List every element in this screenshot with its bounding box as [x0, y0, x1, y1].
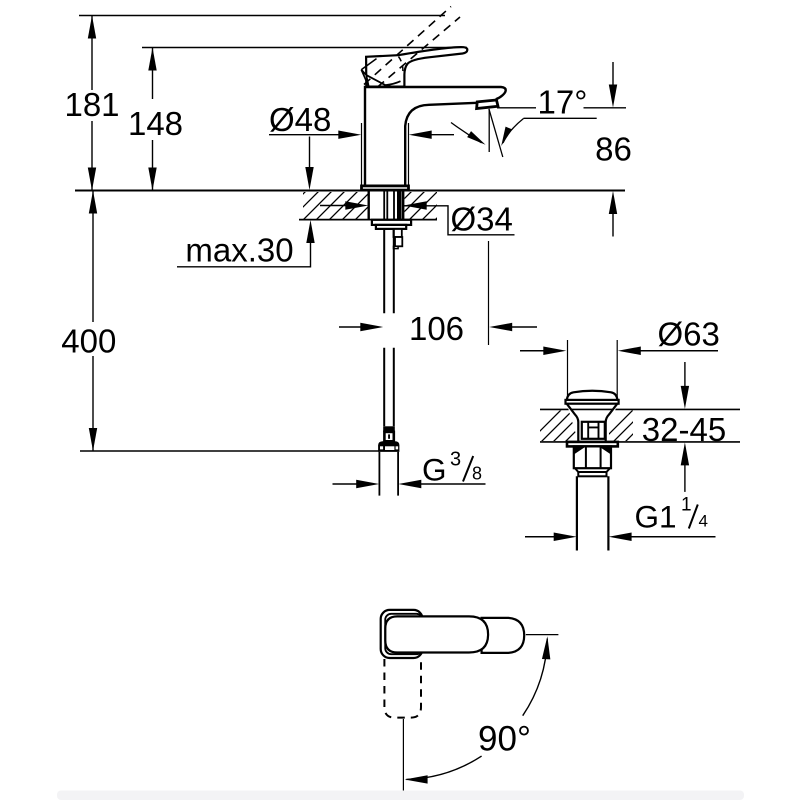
basin hatching right [600, 409, 658, 443]
raised-handle front edge line [361, 59, 376, 70]
angle arc right with arrow [503, 119, 524, 144]
svg-text:Ø34: Ø34 [451, 201, 513, 238]
center line [402, 719, 404, 791]
svg-text:Ø48: Ø48 [269, 101, 331, 138]
svg-text:1: 1 [681, 495, 692, 516]
raised-handle front wedge [361, 70, 368, 87]
90° arc segment lower [406, 756, 481, 779]
drain cap rim [566, 400, 619, 404]
svg-text:181: 181 [64, 86, 119, 123]
dim Ø48 right arrow [409, 131, 432, 139]
svg-text:148: 148 [128, 105, 183, 142]
reference leader from handle [526, 634, 559, 636]
svg-text:4: 4 [699, 512, 708, 531]
drain neck funnel [567, 404, 617, 442]
supply pipe upper segment [384, 229, 394, 313]
G3/8 tube [379, 452, 398, 496]
drain cap dome [567, 391, 618, 400]
dashed raised-handle line 1 [364, 7, 451, 85]
aerator [477, 100, 498, 109]
svg-text:90°: 90° [478, 720, 531, 759]
chamfer band [578, 472, 606, 476]
counter bottom line [299, 219, 437, 221]
dashed raised-handle line 2 [378, 17, 461, 87]
dashed raised-handle rear arc [399, 57, 403, 74]
handle lever (top view) [385, 616, 488, 652]
line: max height level (181) [79, 15, 445, 17]
max30 upper arrow [309, 137, 311, 170]
handle front lower chamfer [366, 75, 400, 85]
drain tailpiece [577, 476, 609, 550]
supply pipe lower segment [384, 348, 394, 427]
ext line from Ø34 down [488, 241, 490, 345]
svg-text:3: 3 [450, 449, 461, 471]
Ø63 extension lines [568, 340, 618, 399]
flow line at 17 deg [489, 109, 503, 157]
Ø34 leader and underline [404, 206, 515, 235]
faucet body outline [365, 87, 506, 186]
mounting nut lower [376, 225, 406, 229]
90° arc segment upper [523, 639, 548, 716]
pop-up rod bracket step 2 [395, 237, 402, 246]
faucet spout underside [405, 103, 477, 186]
bottom reference line (400) [80, 450, 379, 452]
counter hatching right of shank [383, 188, 467, 220]
drain nut [574, 446, 611, 468]
dim 181 line [91, 16, 93, 191]
dashed rotated handle [384, 659, 421, 718]
svg-text:Ø63: Ø63 [658, 316, 720, 353]
dim 148 line [152, 48, 154, 191]
shank pull rod (thick) [397, 191, 402, 220]
pop-up rod bracket step 3 [394, 246, 399, 248]
svg-text:8: 8 [472, 464, 482, 484]
handle [366, 47, 467, 86]
svg-text:86: 86 [595, 131, 632, 168]
svg-text:17°: 17° [538, 84, 588, 121]
nut facet lines [586, 446, 601, 468]
svg-text:G: G [422, 452, 447, 488]
counter top line [75, 190, 625, 192]
pop-up rod bracket step 1 [394, 229, 402, 237]
nut dark corner right [599, 446, 611, 454]
leader to 17° label [497, 107, 626, 109]
mounting nut upper [372, 220, 411, 225]
basin top line [540, 408, 740, 410]
vertical reference line [488, 110, 490, 153]
fitting window center [385, 446, 394, 450]
supply fitting (dark with windows) [378, 441, 399, 452]
handle cap (top view) [381, 610, 423, 658]
svg-text:106: 106 [409, 310, 464, 347]
fitting window left [380, 446, 383, 449]
line: handle top level (148) [142, 47, 467, 49]
nut dark corner left [574, 446, 586, 454]
counter hatching left of shank [277, 188, 400, 220]
footer band [57, 791, 744, 800]
drain washer [567, 442, 618, 447]
svg-text:32-45: 32-45 [642, 411, 726, 448]
ext lines base [362, 123, 409, 189]
pipe connector dark band [383, 426, 395, 432]
overflow window mullions [588, 422, 598, 439]
overflow window frame [582, 422, 605, 439]
svg-text:400: 400 [61, 323, 116, 360]
svg-text:max.30: max.30 [185, 232, 293, 269]
handle cap inner line [385, 614, 422, 654]
shank inner tube lines [384, 191, 394, 220]
handle end cap [482, 618, 525, 653]
dim 400 line [92, 191, 94, 452]
shank outer walls [369, 191, 404, 220]
nut chamfer [575, 468, 610, 472]
svg-text:G1: G1 [635, 499, 677, 535]
basin hatching left [528, 409, 610, 443]
fitting window right [396, 446, 399, 449]
pipe connector piece [384, 432, 393, 441]
faucet base plate [362, 186, 409, 190]
angle arc left with arrow [451, 123, 482, 143]
connector slot [388, 434, 390, 438]
basin bottom line [540, 441, 740, 443]
